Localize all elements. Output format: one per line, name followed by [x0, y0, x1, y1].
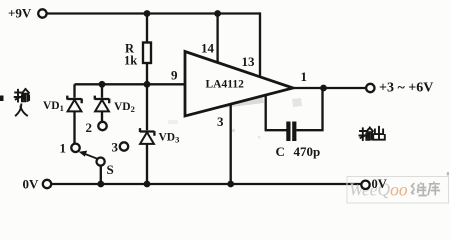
terminal output [366, 84, 374, 92]
wire pin 9 [75, 83, 186, 85]
svg-text:1: 1 [301, 69, 308, 84]
库 [428, 182, 440, 196]
输 [15, 90, 21, 102]
svg-text:+9V: +9V [8, 6, 32, 21]
diode VD3 (zener) [140, 84, 154, 184]
node pin 3 bottom [227, 181, 234, 188]
svg-text:3: 3 [217, 114, 224, 129]
op-amp U1 LA4112 [185, 52, 293, 117]
diode VD2 (zener) [95, 96, 109, 122]
terminal 0V right [361, 181, 369, 189]
contact 1 [71, 144, 79, 152]
wire output pin 1 [293, 87, 366, 89]
wire VD2 top lead [101, 84, 103, 98]
terminal +9V [38, 9, 46, 17]
node VD2 top [99, 81, 106, 88]
wire pin 14 [216, 14, 218, 64]
svg-text:0V: 0V [372, 177, 387, 191]
watermark box [347, 177, 449, 204]
svg-text:0V: 0V [23, 177, 40, 192]
svg-text:13: 13 [242, 54, 256, 69]
wire cap left [265, 95, 287, 130]
node R top [144, 10, 151, 17]
svg-text:9: 9 [171, 68, 178, 83]
label input (Chinese 输入) [15, 89, 29, 116]
wire pin 13 drop [259, 12, 261, 77]
resistor R [143, 14, 151, 85]
node S bottom [97, 181, 104, 188]
node VD3 bottom [144, 181, 151, 188]
维 [411, 183, 415, 194]
svg-text:2: 2 [86, 120, 93, 135]
svg-text:S: S [107, 162, 114, 177]
svg-text:1k: 1k [124, 54, 137, 68]
label output (Chinese 输出) [360, 128, 373, 141]
switch S [79, 151, 105, 184]
watermark Chinese 维库 [411, 182, 440, 196]
terminal 0V left [43, 180, 51, 188]
node output to C [320, 85, 327, 92]
svg-text:3: 3 [112, 140, 119, 155]
svg-text:14: 14 [201, 41, 215, 56]
svg-text:1: 1 [60, 141, 67, 156]
contact 3 [120, 142, 128, 150]
svg-text:C: C [276, 144, 285, 159]
svg-text:LA4112: LA4112 [206, 79, 245, 91]
svg-text:470p: 470p [294, 144, 321, 159]
node pin 14 [214, 10, 221, 17]
diode VD1 (zener) [67, 96, 81, 144]
wire cap right [296, 88, 323, 130]
输 [360, 128, 366, 140]
wire VD1 top lead [73, 84, 75, 98]
入 [16, 105, 27, 116]
wire pin 3 [230, 104, 232, 184]
node R bottom / VD3 top [144, 81, 151, 88]
svg-text:+3 ~ +6V: +3 ~ +6V [379, 81, 433, 96]
wire top rail [47, 12, 260, 14]
capacitor C [286, 122, 296, 142]
wire bottom rail [51, 183, 361, 185]
contact 2 [98, 122, 106, 130]
出 [373, 127, 385, 140]
